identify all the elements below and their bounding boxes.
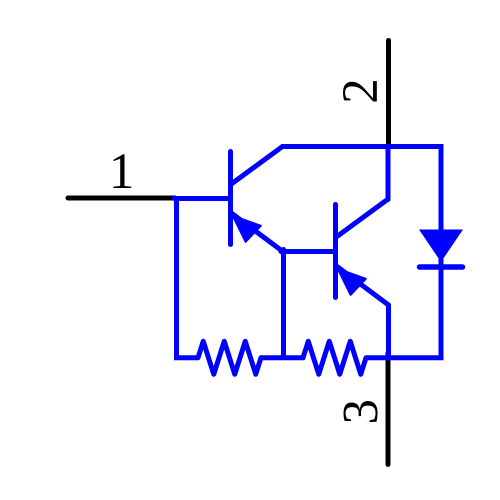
pin 3 wire (black)	[386, 353, 391, 465]
pin 1 wire (black)	[68, 196, 175, 201]
wire: Q2 base from Q1 emitter node	[281, 249, 334, 254]
transistor Q1 (PNP)	[231, 147, 284, 253]
pin 2 wire (black)	[386, 41, 391, 147]
wire: Q2 collector up to top rail	[386, 147, 391, 200]
transistor Q2 (PNP)	[336, 200, 389, 306]
resistor R1 (zigzag)	[198, 341, 261, 374]
wire: Q2 emitter down to bottom rail	[386, 305, 391, 358]
resistor R2 (zigzag)	[303, 341, 366, 374]
svg-text:3: 3	[333, 399, 389, 425]
wire: left vertical leg down to bottom rail (corner)	[177, 197, 199, 358]
Q2 emitter line	[337, 267, 389, 306]
diode D1 cathode bar	[420, 264, 463, 270]
Q1 emitter arrow	[233, 216, 261, 242]
svg-text:1: 1	[109, 144, 135, 200]
Q1 emitter line	[232, 214, 284, 253]
wire: bottom rail right segment up the diode branch and back along top rail	[281, 147, 441, 358]
diode D1 (triangle, cathode down)	[419, 230, 463, 263]
Q2 collector line	[337, 200, 388, 237]
wire: base of Q1 from pin 1	[174, 196, 229, 201]
Q2 emitter arrow	[338, 269, 366, 295]
Q1 base bar	[228, 152, 233, 245]
wire: bottom rail middle segment	[261, 355, 303, 360]
svg-text:2: 2	[333, 78, 389, 104]
wire: middle vertical (Q1 emitter node down to bottom rail)	[281, 250, 286, 358]
Q1 collector line	[232, 147, 283, 184]
Q2 base bar	[333, 205, 338, 298]
